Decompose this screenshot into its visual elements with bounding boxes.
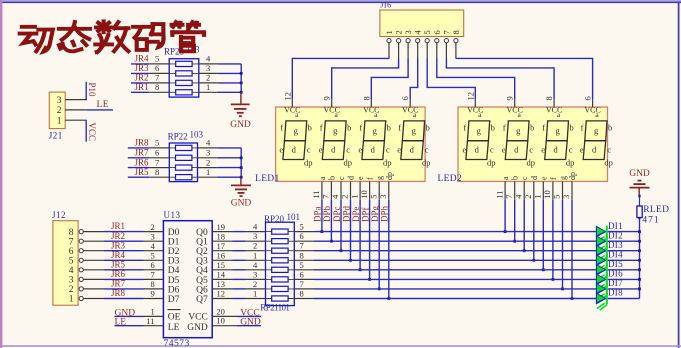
wire LED2 segment f to row 6 bbox=[552, 200, 554, 280]
J16 pin numbers bbox=[384, 30, 461, 35]
svg-text:e: e bbox=[539, 176, 548, 180]
svg-text:15: 15 bbox=[217, 260, 226, 270]
svg-text:5: 5 bbox=[69, 257, 74, 267]
wire LED2 segment c to row 3 bbox=[523, 200, 525, 251]
svg-text:f: f bbox=[581, 123, 584, 133]
svg-text:g: g bbox=[555, 126, 560, 136]
svg-text:9: 9 bbox=[322, 96, 332, 100]
svg-text:5: 5 bbox=[368, 195, 378, 199]
wire RP22 commons bbox=[217, 148, 241, 177]
led DI2 bbox=[596, 235, 607, 253]
svg-text:d: d bbox=[475, 145, 480, 155]
svg-text:e: e bbox=[358, 145, 362, 155]
wire DI5 cathode to bus bbox=[608, 269, 640, 271]
led DI6 bbox=[596, 273, 607, 291]
wire LED1 segment a to row 1 bbox=[321, 200, 323, 232]
LED1 segment pin letters bbox=[318, 172, 394, 180]
junction bbox=[504, 230, 507, 233]
svg-text:6: 6 bbox=[400, 96, 410, 100]
svg-text:74573: 74573 bbox=[164, 339, 190, 348]
LED1 segment pin numbers bbox=[311, 190, 388, 199]
svg-text:8: 8 bbox=[300, 250, 304, 260]
svg-text:12: 12 bbox=[282, 92, 292, 101]
svg-text:10: 10 bbox=[216, 315, 225, 325]
svg-text:LED2: LED2 bbox=[438, 174, 462, 184]
svg-text:Q4: Q4 bbox=[196, 266, 208, 276]
wire LED2 segment e to row 5 bbox=[542, 200, 544, 270]
ground GND2 bbox=[231, 177, 252, 208]
svg-text:DI8: DI8 bbox=[608, 288, 623, 298]
wire J21 pin3 to P10 bbox=[85, 82, 87, 100]
junction bbox=[542, 268, 545, 271]
svg-text:GND: GND bbox=[231, 199, 252, 209]
svg-text:3: 3 bbox=[151, 231, 155, 241]
svg-text:c: c bbox=[490, 145, 494, 155]
svg-text:GND: GND bbox=[629, 169, 650, 179]
svg-text:JR6: JR6 bbox=[111, 269, 126, 279]
wire DI2 cathode to bus bbox=[608, 240, 640, 242]
svg-text:D2: D2 bbox=[168, 247, 180, 257]
svg-text:5: 5 bbox=[151, 251, 155, 261]
ic U13 74573 bbox=[144, 221, 238, 338]
svg-text:d: d bbox=[371, 145, 376, 155]
led DI3 bbox=[596, 245, 607, 263]
svg-text:OE: OE bbox=[168, 313, 181, 323]
svg-text:17: 17 bbox=[217, 241, 226, 251]
svg-text:1: 1 bbox=[384, 30, 394, 34]
wire U13 pin20 VCC bbox=[237, 315, 261, 317]
wire J16 pin6 to display digit bbox=[437, 59, 515, 100]
svg-text:10: 10 bbox=[542, 190, 552, 199]
svg-text:5: 5 bbox=[155, 138, 159, 148]
svg-text:6: 6 bbox=[155, 148, 159, 158]
svg-text:19: 19 bbox=[217, 222, 226, 232]
wire JR5 J12 to U13 bbox=[104, 269, 144, 271]
svg-text:f: f bbox=[366, 177, 375, 180]
svg-text:6: 6 bbox=[69, 247, 74, 257]
svg-text:VCC: VCC bbox=[188, 313, 208, 323]
wire U13 Q0 to RP20 bbox=[232, 231, 246, 233]
wire DI8 cathode to bus bbox=[608, 298, 640, 300]
svg-text:e: e bbox=[319, 145, 323, 155]
display LED1 bbox=[276, 99, 431, 200]
svg-text:14: 14 bbox=[217, 270, 226, 280]
svg-text:JR8: JR8 bbox=[111, 288, 126, 298]
RP23 pin numbers bbox=[155, 54, 211, 92]
svg-text:g: g bbox=[516, 126, 521, 136]
wire JR3 bbox=[131, 72, 149, 74]
wire JR8 J12 to U13 bbox=[104, 298, 144, 300]
svg-text:d: d bbox=[410, 145, 415, 155]
svg-text:b: b bbox=[327, 176, 336, 180]
connector J12 bbox=[53, 221, 104, 306]
svg-text:dp: dp bbox=[487, 158, 496, 168]
svg-text:D1: D1 bbox=[168, 238, 180, 248]
svg-text:P10: P10 bbox=[87, 83, 97, 98]
svg-text:1: 1 bbox=[253, 250, 257, 260]
svg-text:5: 5 bbox=[300, 260, 304, 270]
svg-text:4: 4 bbox=[413, 30, 423, 35]
resistor network RP23 bbox=[149, 59, 217, 97]
wire LED2 segment g to row 7 bbox=[562, 200, 564, 289]
svg-text:8: 8 bbox=[151, 279, 155, 289]
junction bus bbox=[638, 230, 641, 233]
svg-text:6: 6 bbox=[151, 260, 155, 270]
svg-text:dp: dp bbox=[526, 158, 535, 168]
svg-text:16: 16 bbox=[217, 251, 226, 261]
wire LED2 segment b to row 2 bbox=[514, 200, 516, 241]
svg-text:Q1: Q1 bbox=[196, 238, 208, 248]
svg-text:5: 5 bbox=[300, 222, 304, 232]
wire U13 Q4 to RP20 bbox=[232, 269, 246, 271]
svg-text:b: b bbox=[347, 123, 351, 133]
svg-text:12: 12 bbox=[217, 289, 226, 299]
svg-text:GND: GND bbox=[230, 120, 251, 130]
svg-text:9: 9 bbox=[151, 289, 155, 299]
wire DI3 cathode to bus bbox=[608, 250, 640, 252]
svg-text:dp: dp bbox=[604, 158, 613, 168]
svg-text:d: d bbox=[347, 176, 356, 180]
ground GND1 bbox=[230, 92, 251, 130]
LED2 segment pin numbers bbox=[494, 190, 571, 199]
svg-text:2: 2 bbox=[340, 195, 350, 199]
svg-text:f: f bbox=[503, 123, 506, 133]
svg-text:7: 7 bbox=[155, 157, 159, 167]
svg-text:8: 8 bbox=[361, 96, 371, 100]
svg-text:b: b bbox=[491, 123, 495, 133]
svg-text:b: b bbox=[387, 123, 391, 133]
svg-text:8: 8 bbox=[155, 82, 159, 92]
resistor RLED bbox=[637, 206, 642, 218]
svg-text:2: 2 bbox=[523, 195, 533, 199]
wire LED1 segment b to row 2 bbox=[330, 200, 332, 241]
svg-text:g: g bbox=[373, 126, 378, 136]
wire GND to RLED bbox=[639, 196, 641, 206]
svg-text:d: d bbox=[331, 145, 336, 155]
svg-text:471: 471 bbox=[642, 216, 659, 226]
wire J16 pin2 to display digit bbox=[332, 59, 399, 100]
junction bbox=[552, 278, 555, 281]
svg-text:JR7: JR7 bbox=[111, 279, 126, 289]
svg-text:dp: dp bbox=[422, 158, 431, 168]
wire U13 Q3 to RP20 bbox=[232, 259, 246, 261]
svg-text:J21: J21 bbox=[49, 130, 63, 140]
junction bbox=[330, 240, 333, 243]
wire segment row 6 (DPf) to DI6 bbox=[314, 278, 596, 280]
wire segment row 3 (DPc) to DI3 bbox=[314, 250, 596, 252]
svg-text:4: 4 bbox=[69, 266, 74, 276]
wire segment row 4 (DPd) to DI4 bbox=[314, 259, 596, 261]
svg-text:3: 3 bbox=[561, 195, 571, 199]
LED1 VCC pin numbers bbox=[282, 92, 410, 101]
wire segment row 7 (DPg) to DI7 bbox=[314, 288, 596, 290]
svg-text:DI7: DI7 bbox=[608, 278, 623, 288]
wire J16 pin4 to display digit bbox=[410, 59, 418, 100]
wire JR7 J12 to U13 bbox=[104, 288, 144, 290]
svg-text:1: 1 bbox=[206, 82, 210, 92]
svg-text:JR5: JR5 bbox=[111, 259, 126, 269]
svg-text:c: c bbox=[425, 145, 429, 155]
svg-text:DI3: DI3 bbox=[608, 240, 623, 250]
wire LED2 segment d to row 4 bbox=[533, 200, 535, 260]
svg-text:b: b bbox=[511, 176, 520, 180]
svg-text:DI4: DI4 bbox=[608, 250, 623, 260]
svg-text:g: g bbox=[594, 126, 599, 136]
svg-text:JR4: JR4 bbox=[135, 54, 150, 64]
svg-text:D6: D6 bbox=[168, 285, 180, 295]
wire LED1 segment dp to row 8 bbox=[388, 200, 390, 299]
wire J16 pin7 to display digit bbox=[446, 59, 554, 100]
svg-text:3: 3 bbox=[57, 96, 62, 106]
junction bbox=[561, 288, 564, 291]
wire U13 Q5 to RP20 bbox=[232, 278, 246, 280]
wire RP23 commons bbox=[217, 64, 241, 92]
svg-text:3: 3 bbox=[403, 30, 413, 34]
LED2 segment pin letters bbox=[501, 172, 577, 180]
svg-text:f: f bbox=[320, 123, 323, 133]
junction bbox=[349, 259, 352, 262]
wire U13 pin10 GND bbox=[237, 325, 261, 327]
svg-text:D0: D0 bbox=[168, 228, 180, 238]
wire DI4 cathode to bus bbox=[608, 259, 640, 261]
wire J16 pin1 to display digit bbox=[292, 58, 389, 99]
svg-text:D7: D7 bbox=[168, 295, 180, 305]
svg-text:dp: dp bbox=[383, 158, 392, 168]
svg-text:4: 4 bbox=[513, 194, 523, 199]
svg-text:f: f bbox=[280, 123, 283, 133]
svg-text:12: 12 bbox=[465, 92, 475, 101]
svg-text:RLED: RLED bbox=[643, 205, 669, 215]
display LED2 bbox=[458, 99, 613, 200]
svg-text:D5: D5 bbox=[168, 276, 180, 286]
svg-text:f: f bbox=[542, 123, 545, 133]
svg-text:JR3: JR3 bbox=[111, 240, 126, 250]
wire JR7 bbox=[128, 157, 150, 159]
svg-text:2: 2 bbox=[69, 285, 74, 295]
svg-text:c: c bbox=[346, 145, 350, 155]
svg-text:d: d bbox=[514, 145, 519, 155]
svg-text:c: c bbox=[337, 176, 346, 180]
wire JR4 bbox=[131, 63, 149, 65]
wire DI7 cathode to bus bbox=[608, 288, 640, 290]
svg-text:Q2: Q2 bbox=[196, 247, 208, 257]
svg-text:10: 10 bbox=[359, 190, 369, 199]
ground GND3 (top right) bbox=[629, 169, 650, 196]
svg-text:RP22: RP22 bbox=[168, 131, 188, 141]
svg-text:dp: dp bbox=[385, 172, 394, 180]
svg-text:c: c bbox=[529, 145, 533, 155]
svg-text:c: c bbox=[307, 145, 311, 155]
svg-text:RP20: RP20 bbox=[264, 214, 285, 224]
wire U13 Q2 to RP20 bbox=[232, 250, 246, 252]
led DI1 bbox=[596, 226, 607, 244]
svg-text:LE: LE bbox=[168, 323, 180, 333]
junction RP23 commons bbox=[240, 72, 243, 75]
title 动态数码管 bbox=[20, 21, 204, 52]
svg-text:6: 6 bbox=[583, 96, 593, 100]
LED2 VCC pin numbers bbox=[465, 92, 592, 101]
svg-text:c: c bbox=[607, 145, 611, 155]
svg-text:6: 6 bbox=[155, 63, 159, 73]
U13 pin numbers bbox=[146, 222, 225, 326]
wire U13 Q6 to RP20 bbox=[232, 288, 246, 290]
svg-text:1: 1 bbox=[349, 195, 359, 199]
junction bbox=[359, 268, 362, 271]
wire J21 pin2 LE bbox=[87, 109, 113, 111]
wire LED1 segment g to row 7 bbox=[378, 200, 380, 289]
svg-text:7: 7 bbox=[69, 237, 74, 247]
svg-text:JR6: JR6 bbox=[135, 157, 150, 167]
svg-text:11: 11 bbox=[494, 191, 504, 199]
svg-text:f: f bbox=[398, 123, 401, 133]
svg-text:1: 1 bbox=[69, 295, 74, 305]
svg-text:d: d bbox=[530, 176, 539, 180]
svg-text:e: e bbox=[541, 145, 545, 155]
svg-text:c: c bbox=[569, 145, 573, 155]
svg-text:e: e bbox=[462, 145, 466, 155]
svg-text:VCC: VCC bbox=[87, 123, 97, 142]
led DI7 bbox=[596, 283, 607, 301]
svg-text:3: 3 bbox=[69, 276, 74, 286]
svg-text:6: 6 bbox=[300, 231, 304, 241]
svg-text:e: e bbox=[356, 176, 365, 180]
svg-text:4: 4 bbox=[330, 194, 340, 199]
led column left edge bbox=[595, 226, 597, 303]
wire J21 pin1 to VCC bbox=[85, 120, 87, 142]
svg-text:7: 7 bbox=[321, 195, 331, 199]
wire LE to U13 pin11 bbox=[115, 325, 144, 327]
svg-text:Q5: Q5 bbox=[196, 276, 208, 286]
svg-text:dp: dp bbox=[304, 158, 313, 168]
svg-text:3: 3 bbox=[253, 231, 257, 241]
svg-text:g: g bbox=[477, 126, 482, 136]
svg-text:LE: LE bbox=[97, 100, 110, 110]
wire LED2 segment dp to row 8 bbox=[571, 200, 573, 299]
wire JR6 J12 to U13 bbox=[104, 278, 144, 280]
junction RLED bottom bbox=[638, 217, 640, 219]
svg-text:2: 2 bbox=[253, 279, 257, 289]
wire LED2 segment a to row 1 bbox=[504, 200, 506, 232]
svg-text:g: g bbox=[412, 126, 417, 136]
RP20 pin numbers bbox=[253, 222, 304, 299]
svg-text:11: 11 bbox=[311, 191, 321, 199]
svg-text:3: 3 bbox=[253, 269, 257, 279]
svg-text:Q3: Q3 bbox=[196, 257, 208, 267]
svg-text:d: d bbox=[592, 145, 597, 155]
wire JR2 bbox=[131, 82, 149, 84]
svg-text:g: g bbox=[333, 126, 338, 136]
wire JR3 J12 to U13 bbox=[104, 250, 144, 252]
svg-text:1: 1 bbox=[57, 116, 62, 126]
svg-text:e: e bbox=[502, 145, 506, 155]
svg-text:3: 3 bbox=[206, 63, 210, 73]
svg-text:e: e bbox=[580, 145, 584, 155]
svg-text:DI1: DI1 bbox=[608, 221, 623, 231]
svg-text:8: 8 bbox=[155, 167, 159, 177]
svg-text:3: 3 bbox=[378, 195, 388, 199]
wire segment row 5 (DPe) to DI5 bbox=[314, 269, 596, 271]
junction bbox=[523, 249, 526, 252]
svg-text:c: c bbox=[520, 176, 529, 180]
svg-text:8: 8 bbox=[69, 228, 74, 238]
svg-text:11: 11 bbox=[146, 316, 154, 326]
svg-text:18: 18 bbox=[217, 231, 226, 241]
wire JR4 J12 to U13 bbox=[104, 259, 144, 261]
svg-text:a: a bbox=[318, 176, 327, 180]
svg-text:8: 8 bbox=[544, 96, 554, 100]
wire J16 pin5 to display digit bbox=[427, 59, 475, 100]
wire JR1 J12 to U13 bbox=[104, 231, 144, 233]
wire DI6 cathode to bus bbox=[608, 278, 640, 280]
svg-text:a: a bbox=[501, 176, 510, 180]
wire DI1 cathode to bus bbox=[608, 231, 640, 233]
wire J16 pin3 to display digit bbox=[371, 59, 408, 100]
RP22 pin numbers bbox=[155, 138, 211, 177]
wire J16 pin8 to display digit bbox=[456, 58, 593, 99]
led DI8 bbox=[596, 293, 607, 311]
wire segment row 1 (DPa) to DI1 bbox=[314, 231, 596, 233]
junction RP22 commons bbox=[240, 156, 243, 159]
wire JR6 bbox=[128, 167, 150, 169]
junction bbox=[368, 278, 371, 281]
svg-text:JR5: JR5 bbox=[135, 167, 150, 177]
junction bbox=[378, 288, 381, 291]
svg-text:DI6: DI6 bbox=[608, 269, 623, 279]
svg-text:DI2: DI2 bbox=[608, 230, 623, 240]
svg-text:Q7: Q7 bbox=[196, 295, 208, 305]
wire U13 Q1 to RP20 bbox=[232, 240, 246, 242]
svg-text:GND: GND bbox=[187, 323, 208, 333]
svg-text:9: 9 bbox=[505, 96, 515, 100]
resistor network RP22 bbox=[149, 143, 217, 182]
wire segment row 2 (DPb) to DI2 bbox=[314, 240, 596, 242]
svg-text:J12: J12 bbox=[52, 210, 66, 220]
svg-text:2: 2 bbox=[151, 222, 155, 232]
wire JR5 bbox=[128, 176, 150, 178]
svg-text:7: 7 bbox=[151, 270, 155, 280]
svg-text:f: f bbox=[463, 123, 466, 133]
svg-text:b: b bbox=[608, 123, 612, 133]
wire GND to U13 pin1 bbox=[115, 315, 144, 317]
svg-text:7: 7 bbox=[300, 241, 304, 251]
svg-text:JR8: JR8 bbox=[135, 138, 150, 148]
svg-text:b: b bbox=[569, 123, 573, 133]
wire LED cathode bus bbox=[639, 218, 641, 299]
junction bbox=[321, 230, 324, 233]
svg-text:1: 1 bbox=[206, 167, 210, 177]
svg-text:1: 1 bbox=[253, 289, 257, 299]
svg-text:7: 7 bbox=[441, 30, 451, 34]
svg-text:6: 6 bbox=[432, 30, 442, 34]
svg-text:b: b bbox=[530, 123, 534, 133]
wire JR2 J12 to U13 bbox=[104, 240, 144, 242]
svg-text:103: 103 bbox=[190, 129, 204, 139]
svg-text:101: 101 bbox=[287, 212, 301, 222]
svg-text:e: e bbox=[397, 145, 401, 155]
net labels DPa-DPh bbox=[313, 205, 390, 222]
svg-text:7: 7 bbox=[504, 195, 514, 199]
svg-text:e: e bbox=[279, 145, 283, 155]
svg-text:b: b bbox=[426, 123, 430, 133]
svg-text:JR1: JR1 bbox=[111, 221, 125, 231]
led DI5 bbox=[596, 264, 607, 282]
svg-text:7: 7 bbox=[300, 279, 304, 289]
svg-text:d: d bbox=[553, 145, 558, 155]
svg-text:8: 8 bbox=[451, 30, 461, 34]
svg-text:JR2: JR2 bbox=[111, 231, 125, 241]
led DI4 bbox=[596, 254, 607, 272]
svg-text:2: 2 bbox=[57, 106, 62, 116]
